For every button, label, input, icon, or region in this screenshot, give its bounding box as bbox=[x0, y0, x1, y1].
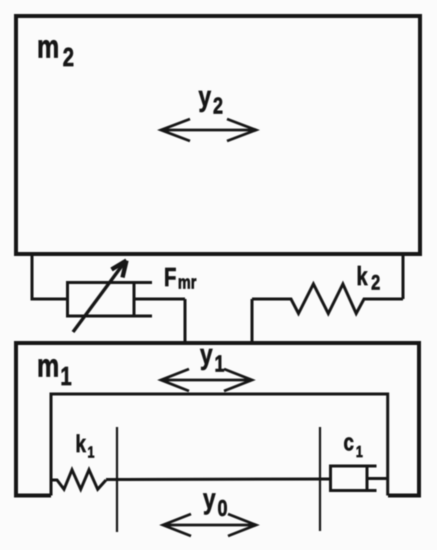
label k1 bbox=[76, 431, 95, 462]
label k2 bbox=[357, 262, 381, 294]
adjustability arrow through Fmr bbox=[73, 261, 127, 333]
label y1 bbox=[200, 337, 225, 377]
displacement arrow y2 bbox=[161, 119, 256, 141]
label y2 bbox=[199, 79, 224, 119]
label m1 bbox=[37, 349, 72, 391]
damper Fmr piston bbox=[133, 283, 136, 317]
mass m1 outer shell bbox=[16, 343, 419, 496]
left base reference tick bbox=[116, 427, 118, 532]
damper Fmr rod bbox=[134, 298, 185, 301]
damper c1 piston bbox=[366, 466, 369, 491]
wire k2 to m2 bbox=[402, 254, 405, 299]
right base reference tick bbox=[319, 427, 321, 531]
wire m2 to Fmr damper bbox=[32, 254, 68, 299]
damper Fmr cylinder bbox=[68, 283, 153, 317]
mass m2 bbox=[16, 16, 420, 254]
inner base frame bbox=[51, 394, 388, 496]
damper c1 rod bbox=[367, 477, 388, 480]
label c1 bbox=[344, 429, 363, 461]
spring k1 bbox=[50, 470, 107, 490]
label Fmr bbox=[164, 263, 197, 293]
displacement arrow y1 bbox=[161, 369, 252, 391]
base connecting line bbox=[106, 478, 331, 482]
wire k2 to m1 bbox=[251, 299, 254, 341]
label y0 bbox=[203, 482, 228, 522]
displacement arrow y0 bbox=[163, 514, 256, 536]
damper c1 cylinder bbox=[331, 466, 377, 491]
label m2 bbox=[37, 30, 74, 72]
wire Fmr to m1 bbox=[184, 299, 187, 341]
spring k2 bbox=[252, 284, 403, 314]
